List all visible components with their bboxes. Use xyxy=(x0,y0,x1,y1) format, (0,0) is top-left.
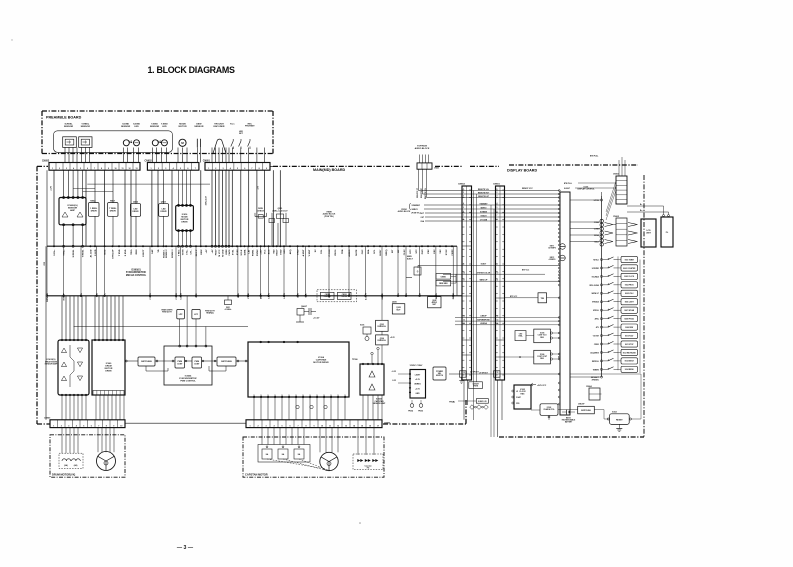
wire remote rows to CN802 xyxy=(419,191,463,198)
svg-text:XTAL: XTAL xyxy=(518,335,522,338)
svg-text:V MUT: V MUT xyxy=(309,249,311,256)
filter LPF 2 with label xyxy=(192,309,216,319)
svg-text:SP9: SP9 xyxy=(284,249,286,254)
svg-text:COIL3: COIL3 xyxy=(181,292,183,299)
driver IC304 CAPSTAN MOTOR DRIVE xyxy=(248,341,349,398)
svg-text:SENSOR: SENSOR xyxy=(81,126,91,128)
svg-text:+5: +5 xyxy=(398,292,400,295)
svg-text:4V BAT 4.2V: 4V BAT 4.2V xyxy=(478,400,487,403)
wire switching2 to capstan drive xyxy=(236,360,248,362)
svg-text:2: 2 xyxy=(463,192,464,194)
svg-text:WP: WP xyxy=(398,249,400,253)
svg-text:-5.2V: -5.2V xyxy=(392,380,397,382)
transistor Q9607 +13.2V circuit xyxy=(296,306,320,322)
svg-text:X2: X2 xyxy=(420,292,422,295)
connector CN903 xyxy=(564,156,627,221)
svg-text:A MUT: A MUT xyxy=(302,249,305,257)
svg-text:2: 2 xyxy=(257,425,258,427)
svg-text:M: M xyxy=(181,141,184,145)
testpoint row capstan xyxy=(296,405,327,408)
svg-text:VCC: VCC xyxy=(265,249,267,254)
svg-text:VCC: VCC xyxy=(196,293,198,298)
svg-text:3: 3 xyxy=(165,168,166,170)
svg-text:5: 5 xyxy=(497,207,498,209)
wire bus1 signal labels xyxy=(54,249,454,259)
svg-text:LED: LED xyxy=(162,126,167,128)
svg-text:2: 2 xyxy=(59,168,60,170)
svg-text:FG: FG xyxy=(97,293,99,296)
svg-text:CONT: CONT xyxy=(194,363,200,365)
svg-text:CAPSTAN: CAPSTAN xyxy=(316,359,327,362)
wire bus2 to drum amp bundle xyxy=(62,296,123,340)
capstan motor box xyxy=(243,437,384,477)
sensor T-REEL SENSOR xyxy=(79,137,92,148)
svg-text:(HA): (HA) xyxy=(64,464,68,467)
wire pwm feed horizontal xyxy=(74,326,249,328)
svg-text:13: 13 xyxy=(135,168,137,170)
svg-text:REG: REG xyxy=(540,337,544,339)
scan speck 2 xyxy=(11,39,12,40)
sensor S-END LED xyxy=(134,140,140,146)
svg-text:S012 RECPAUSE: S012 RECPAUSE xyxy=(623,351,636,354)
svg-text:16: 16 xyxy=(369,425,371,427)
svg-text:OUT: OUT xyxy=(275,394,277,397)
converter 12VDC CONV xyxy=(392,365,426,398)
svg-text:OUT: OUT xyxy=(268,394,270,397)
svg-text:SREQ: SREQ xyxy=(386,249,388,255)
driver N957 T REEL DRIVE xyxy=(108,200,118,246)
svg-text:3: 3 xyxy=(223,168,224,170)
svg-text:REG5: REG5 xyxy=(335,249,337,256)
amp IC9602 SENSOR AMP xyxy=(59,197,86,247)
svg-text:AMP: AMP xyxy=(70,209,75,212)
svg-text:TIMBRE: TIMBRE xyxy=(593,369,599,371)
svg-text:(HA): (HA) xyxy=(74,464,78,467)
svg-text:CUE/REV: CUE/REV xyxy=(324,296,332,298)
svg-text:EJECT: EJECT xyxy=(407,259,414,261)
svg-text:9: 9 xyxy=(266,168,267,170)
svg-text:COMA: COMA xyxy=(594,221,600,224)
svg-text:DRIVE: DRIVE xyxy=(161,211,168,213)
svg-text:+5V: +5V xyxy=(206,249,208,253)
svg-text:16 RIMFS: 16 RIMFS xyxy=(548,247,556,249)
svg-text:CAP: CAP xyxy=(151,249,154,254)
svg-text:MUTE: MUTE xyxy=(356,249,358,256)
svg-text:MUTE: MUTE xyxy=(382,293,384,300)
circuit eject xyxy=(406,255,462,278)
svg-text:LPF: LPF xyxy=(179,314,184,316)
svg-text:10: 10 xyxy=(321,425,323,427)
svg-text:(SW)+13.2V: (SW)+13.2V xyxy=(205,195,207,205)
junction pins bus2 xyxy=(46,295,454,297)
svg-text:DRM VD: DRM VD xyxy=(47,293,49,302)
svg-text:Q9607: Q9607 xyxy=(301,306,308,308)
svg-text:1: 1 xyxy=(52,168,53,170)
scan speck 1 xyxy=(359,522,361,524)
svg-text:MUT: MUT xyxy=(397,309,402,311)
svg-text:OUT: OUT xyxy=(324,394,326,397)
svg-text:AUDIO BLOCK: AUDIO BLOCK xyxy=(415,147,430,150)
svg-text:4.19MHz: 4.19MHz xyxy=(225,308,232,311)
connector TOP/ROM AUDIO BLOCK xyxy=(415,146,439,170)
svg-text:14: 14 xyxy=(353,424,356,427)
wire vcp vcc vss rows xyxy=(420,213,462,223)
connector CN902 xyxy=(613,216,627,246)
sensor DEW SENSOR xyxy=(197,139,200,148)
pin KEYMACT row xyxy=(570,376,603,381)
svg-text:ACC: ACC xyxy=(268,249,271,254)
svg-text:4: 4 xyxy=(463,202,464,205)
svg-text:4: 4 xyxy=(173,167,175,170)
svg-text:CTL-: CTL- xyxy=(191,249,193,254)
wire elbow feed reel xyxy=(73,188,95,190)
svg-text:CN802: CN802 xyxy=(458,184,466,186)
svg-text:CN960: CN960 xyxy=(44,418,51,420)
svg-text:1: 1 xyxy=(249,425,250,427)
block LCD UNIT xyxy=(641,219,656,247)
capstan hall sensors xyxy=(258,445,310,463)
svg-text:SDA: SDA xyxy=(367,249,370,254)
wire exspont long xyxy=(570,373,641,375)
svg-text:SCL: SCL xyxy=(374,249,376,254)
svg-text:P CON: P CON xyxy=(329,249,331,256)
svg-text:SENSOR: SENSOR xyxy=(121,126,131,128)
svg-text:11: 11 xyxy=(497,279,499,281)
svg-text:CN881: CN881 xyxy=(441,276,447,278)
svg-text:10: 10 xyxy=(497,272,499,274)
sensor T-END LED xyxy=(161,140,167,146)
wire syscol to BT9 xyxy=(505,270,546,275)
svg-text:REPROG: REPROG xyxy=(592,361,600,363)
svg-text:DRIVE: DRIVE xyxy=(473,385,479,387)
controller IC001 DISPLAY CONTROL label xyxy=(578,186,602,377)
svg-text:3: 3 xyxy=(497,196,498,198)
svg-text:9: 9 xyxy=(313,425,314,427)
svg-text:MODE 3: MODE 3 xyxy=(172,249,174,258)
svg-text:DEMODUL: DEMODUL xyxy=(378,340,387,342)
svg-text:OUT: OUT xyxy=(338,394,340,397)
svg-text:11: 11 xyxy=(329,425,331,427)
svg-text:CONT: CONT xyxy=(177,363,183,365)
svg-text:DEM1: DEM1 xyxy=(436,292,438,299)
battery BAT01 RECHARGEABLE xyxy=(562,410,575,424)
motor capstan rotor xyxy=(320,452,338,470)
driver Q952 LED DRIVE xyxy=(130,202,140,247)
svg-text:T RL+: T RL+ xyxy=(64,249,66,256)
svg-text:+13.2V: +13.2V xyxy=(313,318,320,320)
svg-text:S REEL: S REEL xyxy=(73,249,75,258)
svg-text:DEW: DEW xyxy=(201,249,203,255)
svg-text:S011 STOP: S011 STOP xyxy=(625,344,634,346)
svg-text:TSTN: TSTN xyxy=(183,249,185,255)
svg-text:7: 7 xyxy=(297,425,298,427)
driver N95A 1 REEL DRIVE xyxy=(89,199,100,246)
svg-text:1: 1 xyxy=(208,168,209,170)
svg-text:DRIVE: DRIVE xyxy=(91,210,98,212)
svg-text:3: 3 xyxy=(463,196,464,198)
svg-text:2: 2 xyxy=(215,168,216,170)
main board border xyxy=(37,166,499,424)
svg-text:BTB PULL: BTB PULL xyxy=(564,183,572,185)
svg-text:Tstn: Tstn xyxy=(230,122,235,125)
svg-text:SCLK: SCLK xyxy=(241,249,243,255)
wire syscol wakeup rows xyxy=(443,274,462,281)
svg-text:(POW TRL): (POW TRL) xyxy=(324,216,334,218)
svg-text:12: 12 xyxy=(337,425,339,427)
svg-text:4: 4 xyxy=(76,424,78,427)
svg-text:OSA: OSA xyxy=(420,220,424,223)
svg-text:HA: HA xyxy=(282,453,285,456)
svg-text:TRIG: TRIG xyxy=(131,249,133,255)
wire reset feedback xyxy=(630,374,641,419)
svg-text:DEMODUL: DEMODUL xyxy=(378,326,387,328)
svg-text:7: 7 xyxy=(98,425,99,427)
encoder TROUGH ENCODER xyxy=(213,139,226,153)
svg-text:REMOTE RY: REMOTE RY xyxy=(421,187,423,198)
svg-text:SYSTEM COLOR: SYSTEM COLOR xyxy=(477,273,491,275)
wire bottom chain xyxy=(531,410,610,419)
svg-text:+5.2V: +5.2V xyxy=(390,337,396,339)
svg-text:17: 17 xyxy=(377,425,379,427)
svg-text:Q: Q xyxy=(417,271,419,273)
svg-text:BTB PULL: BTB PULL xyxy=(590,156,598,158)
svg-text:2: 2 xyxy=(158,168,159,170)
svg-text:M VCC: M VCC xyxy=(219,249,221,256)
svg-text:6: 6 xyxy=(463,211,464,213)
svg-text:KEYMACT: KEYMACT xyxy=(591,376,599,379)
wire pwm1-pwm2 xyxy=(185,360,193,362)
switch Q001 SWITCHING xyxy=(578,404,595,414)
svg-text:ACQUIRES: ACQUIRES xyxy=(590,351,598,354)
svg-text:ENCODER: ENCODER xyxy=(214,126,225,128)
svg-text:TP305: TP305 xyxy=(418,411,423,413)
block TIM xyxy=(505,293,561,303)
svg-text:BOO: BOO xyxy=(105,249,107,254)
svg-text:PWM CONTROL: PWM CONTROL xyxy=(180,380,196,382)
svg-text:SPEAKA: SPEAKA xyxy=(592,301,599,304)
wire main top rail stub xyxy=(270,165,273,167)
block FL tube xyxy=(661,215,673,248)
svg-text:CN302: CN302 xyxy=(325,294,330,296)
svg-text:OUT/IN: OUT/IN xyxy=(341,296,347,298)
svg-text:5: 5 xyxy=(180,168,181,170)
svg-text:CTL2: CTL2 xyxy=(298,249,300,255)
svg-text:ENVLOP: ENVLOP xyxy=(113,249,115,259)
svg-text:MAIN(MD) BOARD: MAIN(MD) BOARD xyxy=(313,168,345,172)
svg-text:7: 7 xyxy=(94,168,95,170)
switch REC PROHIBIT xyxy=(248,139,250,149)
block 4V BAT 4.2V xyxy=(449,399,488,404)
connector CN802 xyxy=(458,184,472,420)
svg-text:15: 15 xyxy=(497,372,499,374)
wire sensor loop xyxy=(54,131,173,153)
wire sensor drops to connector xyxy=(65,148,265,163)
svg-text:T END: T END xyxy=(119,249,121,256)
svg-text:X301: X301 xyxy=(360,325,364,327)
svg-text:KEYLD: KEYLD xyxy=(593,259,599,261)
svg-text:+9V: +9V xyxy=(212,249,214,253)
svg-text:COL: COL xyxy=(321,249,323,254)
svg-text:PB5V: PB5V xyxy=(216,249,218,255)
capstan FG dashed xyxy=(353,454,383,470)
driver Q953 LED DRIVE xyxy=(159,202,169,247)
svg-text:7: 7 xyxy=(463,215,464,217)
svg-text:13: 13 xyxy=(497,319,499,321)
wire left edge down to mech connector xyxy=(45,246,47,420)
connector CN801 xyxy=(493,184,505,438)
svg-text:REM SEN: REM SEN xyxy=(439,283,448,285)
svg-text:OUT: OUT xyxy=(282,394,284,397)
svg-text:S001 TIMER: S001 TIMER xyxy=(625,259,635,261)
svg-text:4: 4 xyxy=(230,167,232,170)
wire left edge from connector xyxy=(46,170,48,246)
svg-text:MODE 2: MODE 2 xyxy=(166,249,168,258)
wire bus1-bus2 connecting verticals xyxy=(47,246,453,296)
wire capstan drive verticals down xyxy=(254,398,345,420)
svg-text:2: 2 xyxy=(61,425,62,427)
wire elbow feed to mode drive xyxy=(87,183,210,185)
circuit DEW CHECK xyxy=(255,208,267,218)
svg-text:8: 8 xyxy=(497,219,498,221)
label FROM AUDIO BLOCK xyxy=(398,203,421,215)
svg-text:2: 2 xyxy=(497,192,498,194)
svg-text:WAKE UP: WAKE UP xyxy=(480,279,489,282)
svg-text:Bu: Bu xyxy=(640,210,642,212)
svg-text:VE2: VE2 xyxy=(440,249,442,254)
svg-text:OUT: OUT xyxy=(317,394,319,397)
wire lineup rows display side xyxy=(505,317,561,324)
svg-text:12: 12 xyxy=(497,316,499,318)
svg-text:Q935: Q935 xyxy=(392,302,397,304)
svg-text:+12V: +12V xyxy=(51,185,53,190)
svg-text:1: 1 xyxy=(497,189,498,191)
svg-text:OST: OST xyxy=(421,217,425,219)
svg-text:+3.0V: +3.0V xyxy=(415,388,421,390)
svg-text:DRM: DRM xyxy=(226,249,228,254)
svg-text:11: 11 xyxy=(463,279,465,281)
svg-text:10: 10 xyxy=(120,425,122,427)
drum hall sensors dashed xyxy=(59,453,83,468)
ground display xyxy=(616,424,622,431)
svg-text:CN8LV/F: CN8LV/F xyxy=(578,404,585,406)
wire bus2 horizontal xyxy=(47,295,462,297)
svg-text:9: 9 xyxy=(463,264,464,266)
svg-text:S003 CLOCK: S003 CLOCK xyxy=(624,276,635,278)
svg-text:M GND: M GND xyxy=(223,249,225,257)
svg-text:12: 12 xyxy=(463,316,465,318)
svg-text:8: 8 xyxy=(463,219,464,221)
svg-text:DRIVE: DRIVE xyxy=(110,210,117,212)
svg-text:SWITCHING: SWITCHING xyxy=(221,361,232,363)
svg-text:REM: REM xyxy=(136,249,138,254)
svg-text:FL: FL xyxy=(666,232,669,234)
svg-text:(POW THL): (POW THL) xyxy=(412,213,421,215)
switch POWER SEL SWITCH xyxy=(433,367,446,380)
svg-text:3: 3 xyxy=(265,425,266,427)
svg-text:S RL+: S RL+ xyxy=(54,249,56,256)
svg-text:SENSOR: SENSOR xyxy=(150,126,160,128)
svg-text:SERVO: SERVO xyxy=(412,209,419,211)
svg-text:3: 3 xyxy=(68,425,69,427)
svg-text:15: 15 xyxy=(361,425,363,427)
svg-text:PW3: PW3 xyxy=(422,249,424,255)
svg-text:11: 11 xyxy=(122,168,124,170)
svg-text:BT9 VCC: BT9 VCC xyxy=(510,296,518,298)
svg-text:PWM2: PWM2 xyxy=(257,249,259,256)
svg-text:1: 1 xyxy=(53,425,54,427)
svg-text:8: 8 xyxy=(259,168,260,170)
svg-text:V BAT: V BAT xyxy=(516,396,521,399)
svg-text:REG: REG xyxy=(521,393,525,395)
svg-text:SWITCHING: SWITCHING xyxy=(581,410,591,412)
svg-text:SYN2: SYN2 xyxy=(446,249,448,255)
testpoint TP304 TP305 xyxy=(408,400,423,413)
svg-text:S002 COUNTER: S002 COUNTER xyxy=(623,268,636,270)
svg-text:6: 6 xyxy=(87,168,88,170)
svg-text:SCINTER: SCINTER xyxy=(592,268,600,270)
svg-text:SENSOR: SENSOR xyxy=(194,126,204,128)
svg-text:V+: V+ xyxy=(105,292,107,295)
svg-text:13: 13 xyxy=(345,425,347,427)
block crystal X301 xyxy=(360,325,371,341)
svg-text:TP306: TP306 xyxy=(352,359,358,361)
svg-text:(PRESET): (PRESET) xyxy=(592,379,600,381)
svg-text:DT2: DT2 xyxy=(410,249,412,254)
svg-text:DATA: DATA xyxy=(244,249,247,255)
svg-text:4: 4 xyxy=(497,202,498,205)
wire bus1 elbow to bus2 xyxy=(456,246,458,296)
oscillator KEY1 16 RIMFS xyxy=(548,244,565,250)
circuit Q961 SW +12.4V/13.2V xyxy=(269,208,289,246)
svg-text:ST2: ST2 xyxy=(416,249,418,254)
svg-text:ATV: ATV xyxy=(596,326,600,329)
svg-text:7: 7 xyxy=(497,215,498,217)
svg-text:HA: HA xyxy=(298,453,301,456)
svg-text:+5V: +5V xyxy=(257,185,259,189)
svg-text:S008 PROG2: S008 PROG2 xyxy=(624,318,634,320)
oscillator KEY2 4 RIMFS xyxy=(549,255,566,261)
connector CN904 xyxy=(586,385,602,400)
svg-text:SWITCH: SWITCH xyxy=(436,375,444,377)
svg-text:4: 4 xyxy=(273,424,275,427)
svg-text:SYS1: SYS1 xyxy=(232,249,234,255)
svg-text:IC960(G): IC960(G) xyxy=(131,270,141,272)
svg-text:6: 6 xyxy=(497,211,498,213)
driver Q9 BATTERY DRIVE xyxy=(469,382,483,389)
svg-text:RESET: RESET xyxy=(616,419,623,421)
svg-text:9: 9 xyxy=(108,168,109,170)
svg-text:EJECT: EJECT xyxy=(143,249,145,257)
svg-text:T REEL: T REEL xyxy=(83,249,85,257)
svg-text:CFG: CFG xyxy=(298,293,300,298)
sensor S-END SENSOR xyxy=(123,140,132,146)
svg-text:CN904: CN904 xyxy=(586,385,592,388)
wire exspont row xyxy=(505,373,560,375)
svg-text:DISPLAY BOARD: DISPLAY BOARD xyxy=(507,169,537,173)
wire audio block drops xyxy=(417,169,427,199)
svg-text:REAR(2): REAR(2) xyxy=(206,312,214,315)
svg-text:REMOTE VT: REMOTE VT xyxy=(417,187,419,198)
svg-text:SOLD: SOLD xyxy=(594,242,599,244)
amp IC9612 DRUM STATE SENSOR AMP xyxy=(45,339,89,396)
wire demod chain xyxy=(381,296,383,320)
motor drum rotor xyxy=(97,452,116,471)
svg-text:OUT: OUT xyxy=(310,394,312,397)
svg-text:CYCGEN: CYCGEN xyxy=(480,219,488,221)
svg-text:OUT: OUT xyxy=(289,394,291,397)
svg-text:LINE/SA: LINE/SA xyxy=(480,322,487,325)
svg-text:1: 1 xyxy=(151,168,152,170)
